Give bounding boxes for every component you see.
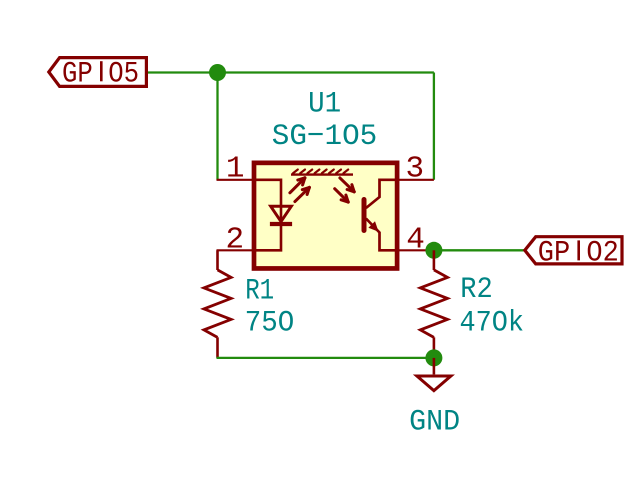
svg-text:2: 2: [225, 222, 244, 257]
svg-text:GND: GND: [409, 405, 460, 439]
global label GPIO5: [49, 58, 147, 87]
wire junction drop to pin 1: [216, 73, 218, 180]
opto-isolator U1 body: [254, 163, 397, 269]
wire bottom R1 to R2: [217, 357, 434, 359]
node junction J2: [425, 242, 442, 259]
svg-text:R2: R2: [460, 273, 493, 307]
reflector bar with hatching: [291, 170, 353, 175]
pin 1 stub: [217, 179, 257, 181]
resistor R2: [420, 250, 447, 358]
LED light arrow b: [295, 187, 310, 201]
pin 4 stub: [395, 249, 434, 251]
svg-text:R1: R1: [245, 275, 274, 309]
pin 3 stub: [395, 179, 434, 181]
reflected light arrow c: [340, 178, 354, 192]
power symbol GND: [417, 358, 451, 391]
node junction J3: [425, 349, 442, 366]
wire GPIO5 to top-right corner: [148, 71, 434, 73]
LED D inside U1: [256, 180, 292, 251]
svg-text:SG−1O5: SG−1O5: [272, 120, 378, 154]
wire right drop to pin 3: [433, 73, 435, 180]
letter I of GPIO5: [100, 61, 103, 81]
LED light arrow a: [290, 178, 305, 193]
global label GPIO2: [525, 237, 622, 264]
reflected light arrow d: [335, 189, 349, 202]
letter I of GPIO2: [577, 240, 580, 260]
svg-text:4: 4: [406, 222, 425, 257]
phototransistor Q inside U1: [364, 180, 395, 251]
node junction J1: [209, 64, 226, 81]
resistor R1: [204, 250, 231, 358]
pin 2 stub: [217, 249, 257, 251]
svg-text:1: 1: [226, 151, 245, 186]
wire pin 4 to GPIO2: [434, 249, 525, 251]
phototransistor emitter arrow: [368, 221, 378, 231]
svg-text:3: 3: [405, 151, 424, 186]
svg-text:47Ok: 47Ok: [460, 307, 525, 341]
svg-text:U1: U1: [308, 88, 341, 122]
svg-text:75O: 75O: [245, 307, 294, 341]
